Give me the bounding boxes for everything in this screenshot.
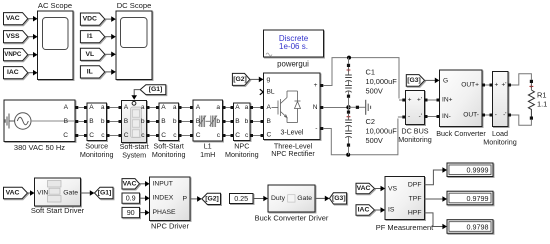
- wire DC BUS Monitoring to Buck IN-: [425, 115, 440, 118]
- block Soft Start Driver: [35, 178, 81, 206]
- svg-text:VDC: VDC: [83, 16, 97, 23]
- DC BUS Monitoring label: [398, 127, 432, 145]
- svg-text:-': -': [503, 112, 506, 119]
- Soft-start System label: [120, 142, 149, 160]
- svg-text:Gate: Gate: [297, 195, 312, 202]
- svg-text:IAC: IAC: [7, 69, 19, 76]
- wire into DC BUS Monitoring minus input: [398, 116, 405, 119]
- from tag VAC (to NPC Driver): [122, 179, 140, 189]
- Buck Converter Driver icon: [288, 195, 295, 202]
- wire phase B NPC Monitoring to rectifier: [250, 120, 264, 123]
- Source Monitoring port letters: [89, 104, 105, 139]
- svg-text:PHASE: PHASE: [153, 209, 177, 216]
- svg-text:90: 90: [127, 208, 135, 217]
- svg-text:A: A: [196, 104, 201, 111]
- Soft-Start Monitoring label: [152, 141, 186, 159]
- wire phase A Soft-Start Monitoring to L1: [179, 106, 194, 109]
- svg-text:OUT+: OUT+: [461, 82, 479, 89]
- svg-text:P: P: [182, 195, 187, 202]
- wire phase A Soft-start to Soft-Start Monitoring: [147, 106, 160, 109]
- source block port letters: [63, 104, 68, 139]
- svg-text:IN-: IN-: [442, 113, 451, 120]
- svg-text:b: b: [245, 118, 249, 125]
- wire phase C source to Source Monitoring: [75, 134, 87, 137]
- wire phase A NPC Monitoring to rectifier: [250, 106, 264, 109]
- wire rectifier minus output to DC bus bottom rail: [320, 119, 398, 155]
- wire IAC to PF IS: [375, 207, 386, 213]
- Soft-start System inner panel: [131, 107, 142, 138]
- NPC Driver port labels: [153, 180, 188, 216]
- svg-text:N: N: [313, 104, 318, 111]
- wire PF DPF to display 1: [425, 167, 448, 185]
- svg-text:1e-06 s.: 1e-06 s.: [279, 42, 308, 51]
- svg-text:INPUT: INPUT: [153, 180, 173, 187]
- capacitor C2 value label: [366, 117, 398, 145]
- svg-text:G: G: [443, 78, 448, 85]
- svg-text:B: B: [124, 118, 129, 125]
- wire phase C Soft-Start Monitoring to L1: [179, 134, 194, 137]
- svg-text:-': -': [419, 113, 422, 120]
- from tag VL (to DC Scope): [80, 48, 104, 60]
- wire VNPC to AC Scope: [28, 52, 38, 58]
- PF Measurement label: [376, 223, 434, 232]
- svg-text:0.9798: 0.9798: [467, 222, 489, 231]
- wire DC BUS Monitoring to Buck IN+: [425, 99, 440, 102]
- rectifier 3-Level caption: [281, 130, 304, 137]
- svg-text:TPF: TPF: [409, 196, 422, 203]
- NPC Monitoring port letters: [235, 104, 249, 139]
- wire into DC BUS Monitoring plus input: [399, 99, 405, 102]
- svg-text:500V: 500V: [366, 86, 383, 95]
- svg-text:Gate: Gate: [63, 190, 78, 197]
- svg-text:VAC: VAC: [357, 185, 371, 192]
- svg-text:1.1: 1.1: [537, 99, 547, 108]
- DC BUS Monitoring port labels: [408, 97, 422, 121]
- svg-text:b: b: [141, 118, 145, 125]
- svg-text:-: -: [495, 112, 497, 119]
- svg-text:+': +': [502, 82, 507, 89]
- wire G3 tag to Buck Converter G port: [425, 78, 440, 84]
- junction N node: [346, 105, 350, 109]
- block Buck Converter: [440, 70, 483, 127]
- svg-text:VAC: VAC: [6, 190, 20, 197]
- from tag G3 (to Buck Converter gate): [406, 75, 424, 87]
- svg-text:b: b: [216, 118, 220, 125]
- block NPC Monitoring: [234, 103, 251, 141]
- Soft-Start Monitoring port letters: [161, 104, 177, 139]
- svg-text:C: C: [124, 132, 129, 139]
- svg-text:b: b: [173, 118, 177, 125]
- svg-text:DPF: DPF: [408, 181, 422, 188]
- svg-text:IL: IL: [87, 68, 93, 75]
- wire inside source block: [31, 120, 75, 122]
- svg-text:C: C: [267, 132, 272, 139]
- powergui corner glyph: [266, 53, 272, 56]
- svg-text:DC Scope: DC Scope: [117, 1, 152, 10]
- svg-text:+': +': [417, 97, 422, 104]
- capacitor C2 branch: [345, 107, 352, 155]
- Soft Start Driver port labels: [37, 190, 78, 197]
- svg-text:[G1]: [G1]: [149, 86, 163, 93]
- from tag I1 (to DC Scope): [80, 31, 104, 43]
- svg-text:[G1]: [G1]: [98, 190, 112, 197]
- Buck Converter label: [436, 129, 486, 138]
- scope label AC Scope: [38, 1, 72, 10]
- L1 port letters: [196, 104, 221, 139]
- constant 0.25: [230, 194, 254, 204]
- from tag IAC (to PF Measurement): [356, 205, 375, 215]
- wire Buck OUT+ to Load Monitoring: [482, 84, 493, 87]
- block Three-Level NPC Rectifier: [264, 73, 321, 140]
- svg-text:Monitoring: Monitoring: [483, 138, 517, 147]
- scope label DC Scope: [117, 1, 152, 10]
- svg-text:A: A: [64, 104, 69, 111]
- svg-text:0.9799: 0.9799: [467, 194, 489, 203]
- svg-text:10,000uF: 10,000uF: [366, 126, 398, 135]
- wire NPC Driver P to G2 goto: [190, 196, 202, 202]
- svg-text:Monitoring: Monitoring: [225, 150, 259, 159]
- wire I1 to DC Scope: [105, 34, 116, 40]
- wire rectifier plus output to DC bus top rail: [320, 58, 399, 99]
- wire Load Monitoring to R1 top: [508, 74, 531, 87]
- rectifier port labels: [267, 76, 318, 139]
- wire R1 bottom to Load Monitoring: [508, 114, 531, 126]
- powergui block: [264, 30, 324, 57]
- svg-text:System: System: [122, 150, 146, 159]
- svg-text:BL: BL: [267, 89, 275, 96]
- Source Monitoring label: [80, 141, 114, 159]
- Buck Converter Driver port labels: [271, 195, 312, 202]
- from tag G1 (to Soft-start System): [140, 85, 166, 95]
- wire phase A source to Source Monitoring: [75, 106, 87, 109]
- svg-text:AC Scope: AC Scope: [38, 1, 72, 10]
- svg-text:B: B: [64, 118, 69, 125]
- svg-text:VIN: VIN: [37, 190, 48, 197]
- wire phase A Source Monitoring to Soft-start System: [107, 106, 122, 109]
- svg-text:a: a: [101, 104, 105, 111]
- NPC Monitoring label: [225, 141, 259, 159]
- ground symbol in source block: [5, 114, 14, 129]
- svg-text:VS: VS: [388, 185, 398, 192]
- svg-text:a: a: [245, 104, 249, 111]
- svg-text:C: C: [235, 132, 240, 139]
- L1 inductor icon: [199, 116, 218, 128]
- inductor block L1: [193, 100, 223, 141]
- goto tag G3: [330, 193, 347, 204]
- block Load Monitoring: [493, 72, 509, 127]
- svg-text:IN+: IN+: [442, 97, 453, 104]
- svg-text:3-Level: 3-Level: [281, 130, 304, 137]
- from tag VAC (to Soft Start Driver): [4, 187, 28, 199]
- svg-text:0.9: 0.9: [126, 194, 136, 203]
- svg-text:[G2]: [G2]: [233, 76, 247, 83]
- from tag VAC (to AC Scope): [4, 13, 28, 25]
- svg-text:NPC Driver: NPC Driver: [151, 222, 189, 231]
- wire VAC to Soft Start Driver: [28, 190, 35, 196]
- capacitor C1 value label: [366, 67, 398, 95]
- svg-text:NPC Rectifier: NPC Rectifier: [271, 149, 315, 158]
- svg-text:VL: VL: [85, 51, 94, 58]
- block Soft-Start Monitoring: [159, 103, 179, 141]
- svg-text:VAC: VAC: [123, 180, 137, 187]
- AC voltage source symbol: [15, 113, 31, 129]
- svg-text:A: A: [124, 104, 129, 111]
- block DC BUS Monitoring: [406, 91, 425, 125]
- svg-text:R1: R1: [537, 91, 546, 100]
- scope screen of DC Scope: [121, 18, 148, 48]
- svg-text:Monitoring: Monitoring: [398, 135, 432, 144]
- Buck Converter Driver label: [255, 214, 329, 223]
- wire IAC to AC Scope: [28, 70, 38, 76]
- svg-text:1mH: 1mH: [200, 150, 215, 159]
- constant 90: [122, 207, 140, 217]
- wire rectifier N output to bus: [320, 106, 348, 109]
- from tag VSS (to AC Scope): [4, 31, 28, 43]
- svg-text:B: B: [267, 118, 272, 125]
- svg-text:C2: C2: [366, 117, 375, 126]
- svg-text:+: +: [408, 97, 412, 104]
- Load Monitoring label: [483, 129, 517, 147]
- svg-text:-: -: [408, 113, 410, 120]
- display 0.9799: [447, 191, 493, 205]
- svg-text:Monitoring: Monitoring: [80, 150, 114, 159]
- wire phase C Soft-start to Soft-Start Monitoring: [147, 134, 160, 137]
- Buck Converter port labels: [442, 78, 479, 121]
- goto tag G1: [95, 187, 114, 199]
- svg-text:Buck Converter Driver: Buck Converter Driver: [255, 214, 329, 223]
- wire VAC to AC Scope: [28, 16, 38, 22]
- junction top of DC bus: [347, 56, 351, 60]
- wire Buck Converter Driver to G3 goto: [315, 196, 329, 202]
- rectifier BL unconnected chevron: [260, 89, 263, 95]
- svg-text:-: -: [315, 125, 317, 132]
- wire 0.9 to NPC Driver INDEX: [140, 195, 150, 201]
- svg-text:0.25: 0.25: [234, 194, 248, 203]
- scope AC Scope: [38, 11, 74, 80]
- scope DC Scope: [116, 11, 152, 80]
- from tag VAC (to PF Measurement): [356, 183, 375, 193]
- svg-text:A: A: [235, 104, 240, 111]
- svg-text:OUT-: OUT-: [463, 112, 479, 119]
- svg-text:VSS: VSS: [6, 33, 20, 40]
- svg-text:B: B: [196, 118, 201, 125]
- svg-text:+: +: [314, 82, 318, 89]
- PF Measurement port labels: [388, 181, 422, 216]
- svg-text:b: b: [101, 118, 105, 125]
- rectifier IGBT and diode icon: [272, 91, 301, 123]
- wire phase B L1 to NPC Monitoring: [223, 120, 234, 123]
- Soft Start Driver icon: [48, 181, 62, 203]
- svg-text:B: B: [161, 118, 166, 125]
- scope screen of AC Scope: [43, 18, 69, 50]
- wire phase B Source Monitoring to Soft-start System: [107, 120, 122, 123]
- from tag VDC (to DC Scope): [80, 13, 104, 25]
- svg-text:C1: C1: [366, 67, 375, 76]
- wire 90 to NPC Driver PHASE: [140, 210, 150, 216]
- wire G2 tag to rectifier g port: [250, 77, 264, 83]
- wire phase B Soft-start to Soft-Start Monitoring: [147, 120, 160, 123]
- svg-text:10,000uF: 10,000uF: [366, 77, 398, 86]
- source block label: [14, 143, 65, 152]
- block Soft-start System: [122, 101, 147, 143]
- wire PF TPF to display 2: [425, 196, 448, 202]
- L1 label: [200, 141, 215, 159]
- svg-text:a: a: [173, 104, 177, 111]
- svg-text:I1: I1: [87, 33, 93, 40]
- Load Monitoring port labels: [495, 82, 507, 119]
- svg-text:VAC: VAC: [6, 15, 20, 22]
- goto tag G2: [202, 193, 221, 204]
- R1 label: [537, 91, 547, 109]
- svg-text:0.9999: 0.9999: [467, 166, 489, 175]
- Soft-start System circle port: [132, 101, 136, 105]
- wire Soft Start Driver to G1 goto: [81, 190, 95, 196]
- svg-text:500V: 500V: [366, 136, 383, 145]
- svg-text:B: B: [89, 118, 94, 125]
- svg-text:C: C: [161, 132, 166, 139]
- svg-text:A: A: [267, 104, 272, 111]
- svg-text:Buck Converter: Buck Converter: [436, 129, 486, 138]
- svg-text:IAC: IAC: [358, 207, 370, 214]
- svg-text:Monitoring: Monitoring: [152, 150, 186, 159]
- svg-text:380 VAC 50 Hz: 380 VAC 50 Hz: [14, 143, 65, 152]
- from tag IAC (to AC Scope): [4, 67, 28, 79]
- wire phase C L1 to NPC Monitoring: [223, 134, 234, 137]
- svg-text:[G2]: [G2]: [205, 195, 219, 202]
- svg-text:IS: IS: [388, 206, 395, 213]
- wire VAC to PF VS: [375, 186, 386, 192]
- wire VSS to AC Scope: [28, 34, 38, 40]
- Soft-start System port letters: [124, 104, 146, 139]
- svg-text:B: B: [235, 118, 240, 125]
- svg-text:[G3]: [G3]: [332, 195, 346, 202]
- wire phase C Source Monitoring to Soft-start System: [107, 134, 122, 137]
- wire 0.25 to Buck Converter Driver: [253, 196, 268, 202]
- svg-text:A: A: [161, 104, 166, 111]
- svg-text:C: C: [196, 132, 201, 139]
- junction bottom of DC bus: [346, 153, 350, 157]
- svg-text:VNPC: VNPC: [4, 51, 22, 58]
- block Buck Converter Driver: [268, 185, 315, 212]
- powergui label: [277, 60, 309, 69]
- svg-text:powergui: powergui: [277, 60, 309, 69]
- svg-text:C: C: [89, 132, 94, 139]
- block PF Measurement: [385, 177, 425, 220]
- wire VAC to NPC Driver INPUT: [140, 181, 150, 187]
- from tag G2 (to rectifier gate): [232, 73, 249, 85]
- display 0.9798: [447, 220, 493, 234]
- block NPC Driver: [150, 177, 191, 221]
- svg-text:INDEX: INDEX: [153, 195, 174, 202]
- wire phase B source to Source Monitoring: [75, 120, 87, 123]
- display 0.9999: [447, 163, 493, 177]
- ground at DC bus midpoint: [349, 100, 371, 115]
- Soft Start Driver label: [31, 206, 85, 215]
- wire phase B Soft-Start Monitoring to L1: [179, 120, 194, 123]
- svg-text:Duty: Duty: [271, 195, 286, 202]
- svg-text:HPF: HPF: [408, 209, 422, 216]
- wire phase C NPC Monitoring to rectifier: [250, 134, 264, 137]
- wire PF HPF to display 3: [425, 213, 448, 229]
- resistor R1: [528, 80, 534, 120]
- NPC Driver label: [151, 222, 189, 231]
- svg-text:PF Measurement: PF Measurement: [376, 223, 434, 232]
- svg-text:g: g: [267, 76, 271, 83]
- svg-text:+: +: [495, 82, 499, 89]
- wire VDC to DC Scope: [105, 16, 116, 22]
- from tag IL (to DC Scope): [80, 66, 104, 78]
- rectifier label: [271, 142, 315, 159]
- from tag VNPC (to AC Scope): [4, 49, 28, 61]
- svg-text:a: a: [141, 104, 145, 111]
- svg-text:A: A: [89, 104, 94, 111]
- capacitor C1 branch: [345, 58, 352, 108]
- svg-text:C: C: [63, 132, 68, 139]
- wire VL to DC Scope: [105, 52, 116, 58]
- block Source Monitoring: [87, 103, 107, 141]
- wire phase A L1 to NPC Monitoring: [223, 106, 234, 109]
- wire IL to DC Scope: [105, 69, 116, 75]
- svg-text:[G3]: [G3]: [407, 77, 421, 84]
- wire Buck OUT- to Load Monitoring: [482, 114, 493, 117]
- svg-text:a: a: [216, 104, 220, 111]
- wire G1 tag to Soft-start System circle port: [131, 90, 140, 100]
- constant 0.9: [122, 193, 140, 203]
- source block 380 VAC 50 Hz: [4, 100, 75, 142]
- svg-text:Soft Start Driver: Soft Start Driver: [31, 206, 85, 215]
